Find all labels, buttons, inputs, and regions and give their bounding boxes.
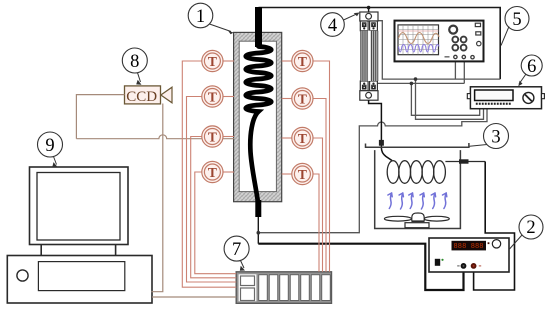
transducer 4: top flange (360, 12, 378, 100)
meter 6: rotary knob (523, 92, 534, 103)
wire: heater bottom power line (thick) to PSU black terminal (258, 244, 463, 290)
svg-text:6: 6 (527, 57, 536, 77)
node: junction dot scope lead 1 (414, 77, 418, 81)
meter 6: left connector tab (467, 94, 470, 99)
oscilloscope 5: knobs (449, 23, 481, 59)
svg-text:T: T (208, 54, 217, 69)
DAQ 7: data acquisition chassis (236, 272, 331, 304)
thermocouple sensor stubs into chamber: left (222, 60, 234, 62)
wire: long sensor wire to chamber (hops CCD cable) (76, 135, 234, 139)
label 1 (38, 3, 544, 270)
label 8 (122, 48, 147, 73)
oscilloscope 5: front panel (395, 21, 484, 62)
pipe: transducer bottom to condenser (with valve fitting) (369, 100, 392, 160)
CCD camera 8: body (125, 86, 161, 104)
svg-text:7: 7 (232, 240, 241, 260)
label 7 (224, 236, 249, 261)
wire: scope probe 2 drop (463, 59, 465, 83)
label 5 (505, 7, 529, 31)
node: junction dot on heater top lead above transducer 4 (367, 6, 371, 10)
transducer 4: top valve blocks (360, 21, 368, 31)
oscilloscope 5: lower waveform (violet scallops) (399, 45, 440, 53)
PSU 2: power switch (435, 259, 440, 266)
wire: meter lead 2 from junction on y=83.4 line (411, 83, 479, 115)
heater element: bottom rod (255, 200, 261, 217)
node: junction dot scope lead 2 (410, 82, 414, 86)
wire: CCD video cable down to computer case (152, 104, 163, 292)
svg-text:T: T (208, 129, 217, 144)
pipe: condenser coil outlet through right wall (445, 161, 485, 163)
svg-text:8: 8 (130, 52, 139, 72)
PSU 2: output terminals (461, 263, 467, 269)
computer 9: monitor (30, 167, 129, 245)
meter 6: display (475, 90, 513, 101)
PSU 2: digital display (452, 241, 487, 251)
svg-text:T: T (298, 91, 307, 106)
vessel 1: chamber inner cavity (239, 41, 276, 191)
thermocouple sensor stubs into chamber: right (282, 60, 293, 62)
fitting on condenser outlet at right wall (459, 159, 469, 163)
node: junction dot on heater bottom lead (257, 231, 261, 235)
label 2 (519, 215, 543, 239)
svg-text:T: T (298, 167, 307, 182)
oscilloscope 5: pink reference line (398, 30, 439, 32)
wire: heater-bottom sense wire to meter 6 (with hop over condenser pipe) (258, 109, 487, 233)
computer 9: desktop case (7, 256, 152, 304)
oscilloscope 5: screen (398, 25, 439, 55)
condenser 3: box walls (375, 150, 461, 228)
condenser 3: cooling air arrows (blue) (388, 193, 447, 209)
svg-text:T: T (298, 54, 307, 69)
svg-text:1: 1 (196, 7, 205, 27)
condenser 3: lid / top tube (366, 143, 469, 147)
wire: scope probe 1 drop (454, 59, 456, 79)
svg-text:888 888: 888 888 (454, 243, 484, 251)
meter 6: button row (476, 103, 511, 105)
vessel 1: boiling chamber outer hatched wall (234, 32, 282, 201)
computer 9: monitor stand legs (40, 245, 42, 256)
label 6 (521, 55, 542, 76)
svg-text:3: 3 (491, 128, 500, 148)
DAQ 7: slot cards (259, 275, 330, 301)
wire: gray bus y=79 from transducer top block to right down-lead (378, 21, 501, 120)
wire: heater bottom lead down (257, 217, 259, 244)
wire: heater top lead from coil to right side (259, 8, 501, 80)
oscilloscope 5: upper waveform (tan sine) (399, 33, 440, 44)
wire: CCD loop wire (left of camera) (76, 95, 236, 297)
DAQ 7: controller module white windows (239, 274, 257, 301)
heater element: coil spring (246, 47, 272, 202)
svg-text:5: 5 (512, 10, 521, 30)
svg-text:2: 2 (526, 218, 535, 238)
svg-text:T: T (298, 131, 307, 146)
wire: computer to DAQ cable (152, 296, 236, 298)
CCD camera 8: lens cone (161, 87, 172, 103)
condenser 3: coil (5 loops) (387, 161, 485, 184)
pipe/wire: condenser outlet to PSU red terminal (474, 162, 515, 291)
PSU 2: power supply box (429, 238, 509, 272)
label 3 (484, 124, 509, 149)
thermocouples: left column wires (salmon) (182, 61, 329, 287)
wire: meter lead 1 from junction on y=79 line (416, 79, 484, 119)
wire: gray bus y=83.4 from transducer bottom block to scope probe 2 (378, 82, 465, 84)
svg-text:T: T (208, 89, 217, 104)
transducer 4: bottom flange (360, 91, 378, 101)
svg-text:T: T (208, 165, 217, 180)
thermocouple T symbols: right column (292, 50, 313, 71)
svg-text:9: 9 (45, 136, 54, 156)
svg-text:CCD: CCD (126, 89, 157, 105)
svg-text:4: 4 (328, 16, 337, 36)
label 9 (38, 132, 63, 157)
heater element: top rod (255, 7, 262, 47)
transducer 4: bottom valve blocks (360, 81, 368, 91)
transducer 4: sight tube bundle (360, 31, 378, 81)
valve fitting on condenser inlet pipe (379, 140, 384, 146)
transducer 4: valve handles (362, 23, 375, 89)
condenser 3: fan (384, 213, 449, 228)
meter 6: bench multimeter box (470, 87, 541, 109)
label 4 (321, 13, 345, 37)
thermocouples: right column wires (313, 61, 330, 272)
thermocouple T symbols: left column (202, 50, 313, 184)
PSU 2: knob (492, 240, 500, 248)
wire: stub from heater lead down to transducer 4 top flange (368, 8, 370, 13)
